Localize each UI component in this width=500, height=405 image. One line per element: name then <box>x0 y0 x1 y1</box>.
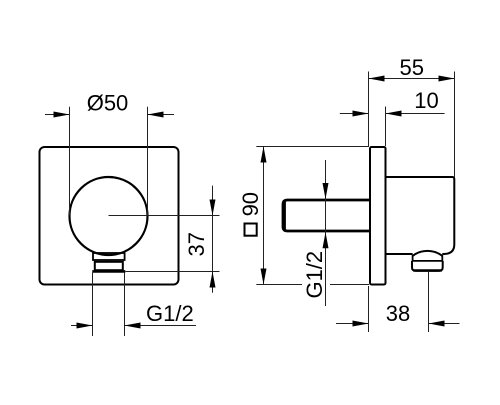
dimension 55 arrow right <box>439 76 455 82</box>
dimension Ø50 extension line right <box>147 107 149 216</box>
svg-text:Ø50: Ø50 <box>87 90 129 115</box>
dimension 55 arrow left <box>369 76 385 82</box>
side view outlet dome <box>413 251 443 256</box>
side view outlet nut sides and band <box>413 255 443 261</box>
svg-text:55: 55 <box>400 55 424 80</box>
front G1/2 outlet nut bottom edge <box>92 270 125 273</box>
dimension 55 line <box>369 78 455 80</box>
front wall plate <box>40 147 179 285</box>
dimension 38 arrow left <box>353 321 369 327</box>
dimension Ø50 arrow left <box>54 112 70 118</box>
dimension 37 arrow bottom <box>210 272 216 288</box>
dimension square-90 arrow bottom <box>261 269 267 285</box>
side view outlet nut bottom edge <box>413 269 442 271</box>
dimension G1/2 front extension line right <box>124 273 126 337</box>
svg-text:37: 37 <box>184 232 209 256</box>
dimension 10 line right segment <box>386 113 445 115</box>
dimension 38 arrow right <box>429 321 445 327</box>
dimension Ø50 line right segment <box>148 114 175 116</box>
front horizontal centerline <box>109 215 220 217</box>
dimension Ø50 extension line left <box>69 107 71 216</box>
dimension G1/2 side arrow top <box>323 183 329 199</box>
dimension G1/2 front line left segment <box>71 325 93 327</box>
dimension 37 line <box>212 186 214 293</box>
dimension 10 arrow left <box>353 111 369 117</box>
dimension 37 arrow top <box>210 200 216 216</box>
dimension square-90 extension line bottom <box>256 284 369 286</box>
dimension square-90 square symbol <box>245 224 257 236</box>
side wall plate <box>370 147 386 285</box>
side view outlet nut lower block <box>412 261 443 271</box>
dimension square-90 arrow top <box>261 147 267 163</box>
dimension Ø50 arrow right <box>148 112 164 118</box>
side view inlet pipe <box>283 200 370 231</box>
dimension 10 line left segment <box>340 113 369 115</box>
dimension 37 extension line bottom <box>126 271 220 273</box>
dimension square-90 line <box>263 147 265 285</box>
dimension 10 arrow right <box>386 111 402 117</box>
front G1/2 outlet nut band 2 <box>95 262 123 270</box>
white halo for G1/2 side label <box>302 247 330 300</box>
front G1/2 outlet nut band 1 <box>93 253 125 260</box>
dimension 10 extension line right <box>385 107 387 147</box>
dimension 38 extension line left <box>368 286 370 332</box>
dimension 38 extension line right <box>428 272 430 332</box>
dimension G1/2 side arrow bottom <box>323 232 329 248</box>
dimension 55 extension line right <box>454 72 456 178</box>
dimension G1/2 front arrow right <box>125 323 141 329</box>
dimension square-90 extension line top <box>256 146 369 148</box>
svg-text:38: 38 <box>386 301 410 326</box>
svg-text:90: 90 <box>238 192 263 216</box>
side view body <box>386 177 454 254</box>
dimension 38 line right segment <box>429 323 460 325</box>
dimension G1/2 side shaft top <box>325 160 327 306</box>
dimension G1/2 front arrow left <box>77 323 93 329</box>
side view inlet pipe thick left face <box>283 201 286 230</box>
dimension G1/2 front extension line left <box>92 273 94 337</box>
dimension 38 line left segment <box>336 323 369 325</box>
svg-text:G1/2: G1/2 <box>146 301 194 326</box>
svg-text:G1/2: G1/2 <box>302 251 327 299</box>
side view body bottom-left edge <box>386 253 413 255</box>
front circle Ø50 escutcheon <box>70 177 148 255</box>
dimension G1/2 front line right segment <box>125 325 197 327</box>
dimension Ø50 line left segment <box>45 114 70 116</box>
dimension 55 extension line left <box>368 72 370 147</box>
svg-text:10: 10 <box>414 88 438 113</box>
